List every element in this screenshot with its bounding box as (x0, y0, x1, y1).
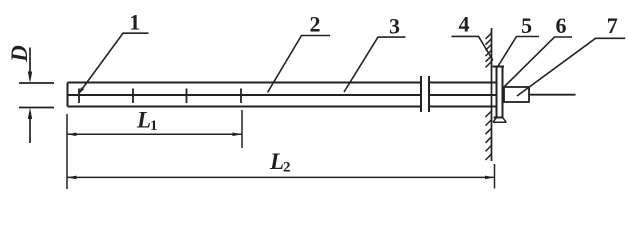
svg-text:2: 2 (283, 160, 291, 176)
svg-text:4: 4 (459, 12, 470, 37)
svg-text:3: 3 (389, 14, 400, 39)
svg-text:L: L (269, 149, 284, 174)
svg-text:5: 5 (521, 13, 532, 38)
svg-text:1: 1 (150, 118, 158, 134)
svg-text:L: L (136, 108, 151, 133)
svg-text:D: D (7, 45, 32, 63)
svg-text:1: 1 (129, 10, 140, 35)
svg-text:7: 7 (607, 13, 618, 38)
svg-text:2: 2 (310, 11, 321, 36)
svg-text:6: 6 (556, 13, 567, 38)
